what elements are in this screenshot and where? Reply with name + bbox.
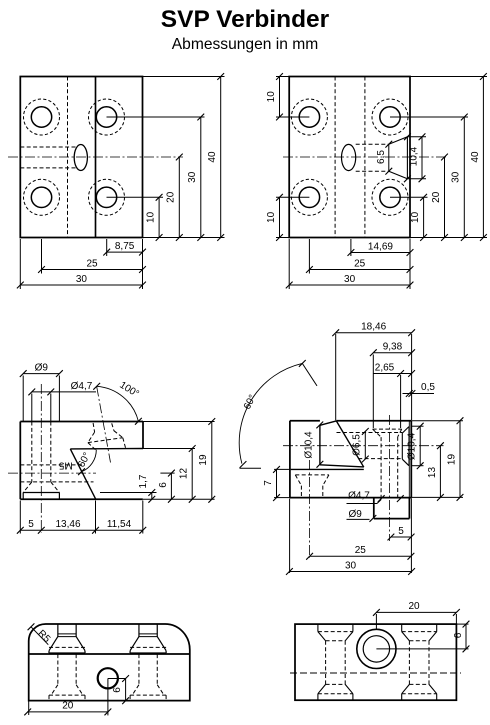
view4 left screw recess hidden: [295, 474, 329, 476]
view2 dimension 10 bottom-left: [279, 197, 281, 237]
view4 dimension diameter 10,4 left: [316, 422, 323, 429]
view2 extension lines: [276, 76, 289, 78]
svg-text:30: 30: [451, 171, 462, 183]
svg-text:2,65: 2,65: [375, 363, 395, 374]
view3 body left edge: [19, 422, 21, 500]
svg-text:20: 20: [431, 191, 442, 203]
svg-text:25: 25: [355, 545, 367, 556]
view1 hole bottom-right: [96, 187, 116, 207]
view2 horizontal centerline: [283, 156, 448, 158]
svg-text:30: 30: [345, 560, 357, 571]
view6 center hole inner circle: [363, 636, 389, 662]
view2 hole top-right: [380, 107, 400, 127]
svg-text:19: 19: [198, 454, 209, 466]
svg-text:14,69: 14,69: [368, 241, 393, 252]
view2 body outline: [289, 77, 410, 238]
view4 body top edge: [290, 420, 320, 422]
view1 body outline: [20, 77, 142, 238]
view4 dimension 60 degrees arc: [239, 363, 302, 463]
svg-text:13: 13: [427, 467, 438, 479]
svg-text:6: 6: [158, 482, 169, 488]
view3 dimension 6: [170, 473, 172, 499]
svg-text:9,38: 9,38: [383, 342, 403, 353]
view5 body outline: [29, 624, 190, 701]
view3 screw axis centerline: [40, 384, 42, 533]
view6 dimension 6: [376, 648, 468, 650]
view1 hidden hole lines: [20, 146, 75, 148]
svg-text:10: 10: [266, 211, 277, 223]
view4 right screw axis: [389, 415, 391, 541]
view6 right top recess hidden: [401, 624, 403, 632]
view1 dimension 30 vertical: [200, 117, 202, 238]
svg-text:30: 30: [76, 274, 88, 285]
view4 dimension 18,46: [335, 334, 337, 420]
svg-text:Ø4,7: Ø4,7: [348, 490, 370, 501]
view4 dimension 0,5: [403, 393, 435, 395]
view4 dimension 19: [459, 421, 461, 498]
svg-text:Ø10,4: Ø10,4: [304, 431, 315, 459]
view2 center bore hidden lines: [356, 143, 389, 145]
svg-text:7: 7: [263, 480, 274, 486]
view3 dimension 100 degrees arc: [97, 386, 139, 421]
svg-text:30: 30: [187, 171, 198, 183]
view2 dimension 20: [444, 157, 446, 238]
view3 body bottom edge: [20, 498, 143, 500]
svg-text:20: 20: [62, 701, 74, 712]
view3 dimension 60 degrees arc: [82, 450, 97, 472]
view3 tilted countersink hidden: [93, 423, 95, 432]
view2 center bore ellipse: [342, 144, 356, 170]
view1 dimension 20: [178, 157, 180, 238]
view1 dimension 8,75: [107, 251, 143, 253]
view3 screw head: [23, 492, 59, 494]
view4 right countersink cone: [401, 433, 403, 459]
svg-text:40: 40: [470, 151, 481, 163]
svg-text:0,5: 0,5: [421, 382, 435, 393]
view5 center hole circle: [98, 668, 118, 688]
view5 right screw tenon: [138, 624, 140, 637]
view3 horizontal bore hidden lines: [20, 464, 84, 466]
view5 mid edge: [29, 653, 190, 655]
view6 hidden mid line: [290, 672, 461, 674]
svg-text:13,46: 13,46: [55, 519, 80, 530]
svg-text:19: 19: [446, 454, 457, 466]
svg-text:M5: M5: [58, 460, 72, 471]
view1 solid vertical edge: [95, 77, 97, 238]
view4 body bottom edge: [290, 497, 412, 499]
view4 funnel floor: [320, 465, 364, 467]
view2 hidden vertical lines: [334, 77, 336, 238]
view3 dimension diameter 4,7: [31, 394, 33, 422]
view1 hole top-right: [96, 107, 116, 127]
svg-text:10: 10: [410, 211, 421, 223]
view5 dimension 20: [28, 702, 30, 716]
view4 right screw recess hidden: [373, 428, 402, 430]
view2 countersink cone: [389, 137, 408, 144]
view1 dimension 25: [42, 269, 143, 271]
view4 dimension diameter 10,4 right: [412, 425, 424, 427]
svg-text:Ø6,5: Ø6,5: [352, 434, 363, 456]
svg-text:10: 10: [266, 91, 277, 103]
view4 dimension 2,65: [400, 375, 402, 428]
svg-text:20: 20: [166, 191, 177, 203]
view6 left top recess hidden: [317, 624, 319, 632]
view4 funnel top slant: [320, 421, 336, 425]
view4 bore hidden lines 6,5: [337, 432, 403, 434]
svg-text:Ø9: Ø9: [35, 362, 49, 373]
view6 left bottom recess hidden: [317, 694, 319, 700]
view1 extension lines: [143, 76, 225, 78]
view4 funnel diagonal: [336, 421, 364, 467]
view6 dimension 20: [375, 614, 377, 629]
view2 dimension 25: [309, 269, 410, 271]
view3 body top edge: [20, 421, 143, 423]
view5 left screw tenon: [57, 624, 59, 637]
view1 hole bottom-left: [31, 187, 51, 207]
view3 screw head flare hidden: [23, 482, 32, 493]
view1 dimension 40: [220, 77, 222, 238]
view5 left screw hidden lower: [57, 654, 59, 685]
svg-text:10,4: 10,4: [408, 146, 419, 166]
view4 dimension 30: [289, 499, 291, 574]
view5 right screw hidden lower: [138, 654, 140, 685]
view6 body outline: [295, 624, 456, 700]
view1 horizontal centerline: [8, 156, 183, 158]
view3 screw shaft hidden: [31, 422, 33, 483]
view3 dimension 5: [20, 529, 143, 531]
svg-text:30: 30: [344, 274, 356, 285]
svg-text:18,46: 18,46: [361, 322, 386, 333]
view1 hidden vertical line: [67, 77, 69, 238]
svg-text:Ø4,7: Ø4,7: [71, 381, 93, 392]
view2 hole top-left: [299, 107, 319, 127]
view4 dimension 13: [439, 446, 441, 498]
view4 dimension 5: [410, 499, 412, 574]
view3 dimension diameter 9: [22, 376, 24, 422]
view4 bottom tongue: [373, 498, 375, 519]
view2 dimension 30: [289, 284, 410, 286]
svg-text:6: 6: [453, 632, 464, 638]
view4 dimension 9,38: [372, 355, 374, 429]
view3 dimension 19: [211, 422, 213, 500]
view3 body right edge: [142, 422, 144, 449]
svg-text:SVP Verbinder: SVP Verbinder: [161, 6, 330, 33]
view2 dimension 10 right: [423, 197, 425, 237]
view2 dimension 10 top-left: [279, 77, 281, 118]
svg-text:40: 40: [207, 151, 218, 163]
svg-text:5: 5: [28, 519, 34, 530]
view3 slot lower edge: [70, 449, 96, 499]
view1 dimension 30: [20, 284, 142, 286]
svg-text:Ø9: Ø9: [349, 509, 363, 520]
svg-text:6,5: 6,5: [376, 150, 387, 164]
view4 right inner line 0,5: [408, 421, 410, 498]
view4 right extension lines: [412, 420, 463, 422]
view2 hole bottom-left: [299, 187, 319, 207]
svg-text:Abmessungen in mm: Abmessungen in mm: [172, 36, 318, 53]
svg-text:25: 25: [354, 258, 366, 269]
view4 dimension 7: [274, 468, 291, 470]
view3 dimension 12: [191, 449, 193, 500]
svg-text:10: 10: [146, 211, 157, 223]
view6 right bottom recess hidden: [401, 694, 403, 700]
view4 body right edge: [410, 421, 412, 498]
view4 left screw axis: [309, 460, 311, 558]
view2 dimension 10,4: [407, 136, 426, 138]
svg-text:12: 12: [179, 468, 190, 480]
view1 hole top-left: [31, 107, 51, 127]
svg-text:8,75: 8,75: [115, 241, 135, 252]
view1 dimension 10: [158, 197, 160, 237]
view3 tilted hole axis: [97, 387, 111, 463]
view3 right extension lines: [143, 421, 215, 423]
svg-text:11,54: 11,54: [107, 519, 132, 530]
view4 horizontal centerline: [283, 445, 444, 447]
svg-text:6: 6: [112, 687, 123, 693]
view2 dimension 40: [482, 77, 484, 238]
view4 body left edge: [289, 421, 291, 498]
view2 dimension 30 vertical: [463, 117, 465, 238]
svg-text:20: 20: [408, 601, 420, 612]
view3 bottom extension lines: [19, 501, 21, 534]
view3 dimension 1,7: [151, 493, 153, 500]
view4 dimension diameter 6,5: [364, 431, 366, 459]
view5 radius R5 leader: [31, 627, 48, 645]
svg-text:25: 25: [86, 258, 98, 269]
view2 dimension 14,69: [351, 252, 410, 254]
view4 dimension 25: [310, 555, 411, 557]
svg-text:5: 5: [398, 526, 404, 537]
svg-text:Ø10,4: Ø10,4: [407, 432, 418, 460]
view6 center hole outer circle: [357, 629, 396, 668]
view3 horizontal centerline: [8, 472, 96, 474]
view5 dimension 6: [108, 678, 126, 680]
view2 hole bottom-right: [380, 187, 400, 207]
view1 side hole ellipse: [74, 145, 87, 171]
svg-text:1,7: 1,7: [138, 474, 149, 488]
view3 slot shoulder edge: [70, 448, 143, 450]
view2 dimension 6,5: [388, 144, 390, 171]
view4 body floor line: [291, 468, 364, 470]
view4 funnel left wall: [319, 425, 321, 464]
